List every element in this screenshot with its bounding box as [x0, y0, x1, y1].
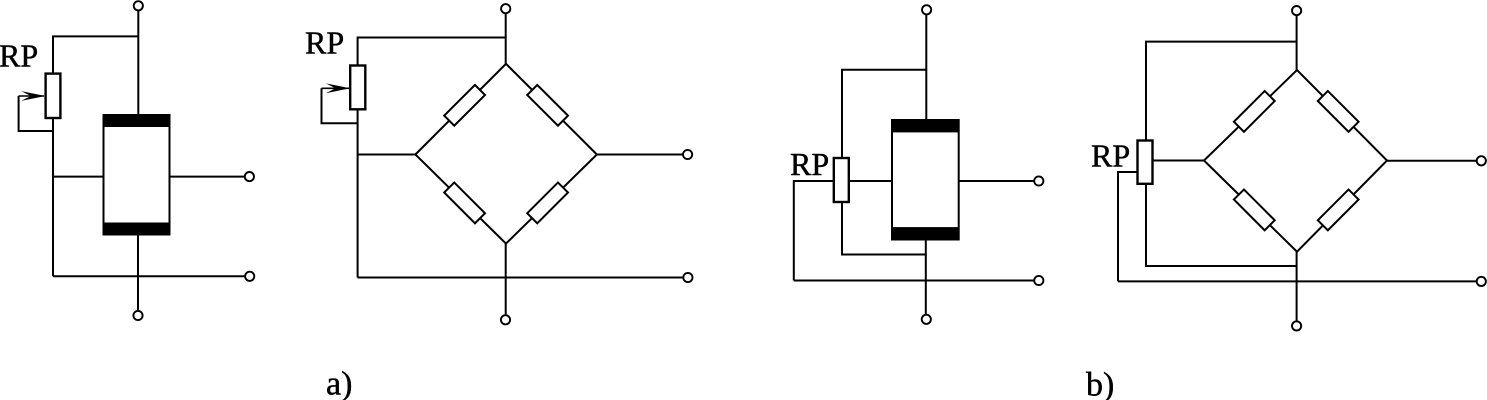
svg-text:RP: RP [790, 146, 829, 182]
svg-text:b): b) [1086, 367, 1114, 400]
wire bottom output bus (a2) [358, 277, 683, 279]
bridge arm resistor lower-right (b2) [1318, 189, 1359, 230]
potentiometer RP body (a2) [350, 66, 365, 110]
wire top branch to potentiometer (b1) [842, 70, 926, 158]
wire top vertical from terminal to diamond top (a2) [505, 14, 507, 64]
bridge box outline (b1) [892, 120, 959, 240]
wire wiper loop to bottom lead (a1) [19, 96, 53, 131]
wire top vertical from terminal to bridge top (b1) [925, 15, 927, 120]
output terminal lower (a2) [683, 273, 692, 282]
wire middle left to bridge box (a1) [53, 176, 104, 178]
wire pot bottom lead down to output bus (a1) [52, 118, 54, 276]
wire top horizontal to potentiometer (b2) [1146, 42, 1297, 141]
svg-text:RP: RP [1091, 138, 1130, 174]
bridge arm resistor lower-left (a2) [444, 182, 485, 223]
supply terminal bottom (a1) [133, 311, 142, 320]
bridge arm resistor lower-left (b2) [1234, 189, 1275, 230]
supply terminal top (b1) [922, 5, 931, 14]
svg-text:RP: RP [305, 25, 344, 61]
wire pot bottom lead and branch to bridge bottom (b1) [842, 202, 926, 255]
wire bridge bottom lead (a1) [137, 235, 139, 311]
potentiometer RP body (a1) [46, 74, 61, 118]
supply terminal top (b2) [1292, 6, 1301, 15]
wire bottom output bus (b2) [1118, 280, 1477, 282]
wire top vertical from terminal to bridge top [137, 11, 139, 116]
bridge box bottom black band (a1) [104, 223, 170, 235]
wire bridge right output (b1) [959, 180, 1034, 182]
wire wiper right tap to bridge left lead (b1) [849, 180, 892, 182]
potentiometer wiper arrow (a2) [322, 83, 351, 93]
svg-text:a): a) [326, 366, 352, 400]
output terminal lower (b2) [1477, 277, 1486, 286]
supply terminal top (a1) [134, 1, 143, 10]
output terminal lower (b1) [1034, 276, 1043, 285]
bridge box top black band (a1) [104, 115, 170, 127]
supply terminal top (a2) [501, 4, 510, 13]
wire diamond bottom lead (a2) [505, 244, 507, 315]
supply terminal bottom (b1) [922, 315, 931, 324]
wire wiper right tap to diamond left vertex (b2) [1153, 160, 1205, 162]
bridge arm resistor upper-left (b2) [1234, 91, 1275, 132]
bridge arm resistor upper-right (b2) [1318, 91, 1359, 132]
potentiometer RP body (b2) [1138, 141, 1153, 184]
wire wiper left tap to lower bus (b1) [794, 181, 834, 281]
output terminal lower (a1) [245, 272, 254, 281]
bridge arm resistor upper-right (a2) [527, 85, 568, 126]
wire right output (b2) [1387, 160, 1477, 162]
output terminal upper (b2) [1477, 156, 1486, 165]
wire diamond bottom lead (b2) [1296, 252, 1298, 321]
wire top horizontal to potentiometer (a2) [358, 38, 506, 66]
svg-text:RP: RP [0, 38, 38, 74]
output terminal upper (b1) [1034, 176, 1043, 185]
wire top vertical from terminal to diamond top (b2) [1296, 16, 1298, 70]
supply terminal bottom (b2) [1292, 321, 1301, 330]
supply terminal bottom (a2) [501, 315, 510, 324]
wire wiper left tap to lower bus (b2) [1118, 172, 1138, 281]
bridge box bottom black band (b1) [892, 227, 959, 239]
bridge arm resistor upper-left (a2) [444, 85, 485, 126]
wire top horizontal to potentiometer [53, 36, 138, 73]
wire pot bottom lead and branch to diamond bottom (b2) [1146, 184, 1297, 266]
wire wiper loop to bottom lead (a2) [322, 88, 358, 123]
wire bottom output bus (a1) [53, 275, 245, 277]
wire bridge right output (a1) [170, 176, 245, 178]
potentiometer RP body (b1) [834, 158, 849, 202]
diamond bridge edges (a2) [415, 64, 597, 244]
wire bridge bottom lead (b1) [925, 240, 927, 315]
bridge arm resistor lower-right (a2) [527, 182, 568, 223]
bridge box outline (a1) [104, 115, 170, 235]
output terminal upper (a2) [683, 150, 692, 159]
output terminal upper (a1) [245, 172, 254, 181]
potentiometer wiper arrow (a1) [19, 91, 46, 101]
wire pot bottom lead down to output bus (a2) [357, 109, 359, 277]
wire right output (a2) [597, 154, 683, 156]
diamond bridge edges (b2) [1204, 70, 1387, 252]
wire bottom output bus (b1) [794, 280, 1034, 282]
wire middle left to diamond left vertex (a2) [358, 154, 416, 156]
bridge box top black band (b1) [892, 120, 959, 132]
